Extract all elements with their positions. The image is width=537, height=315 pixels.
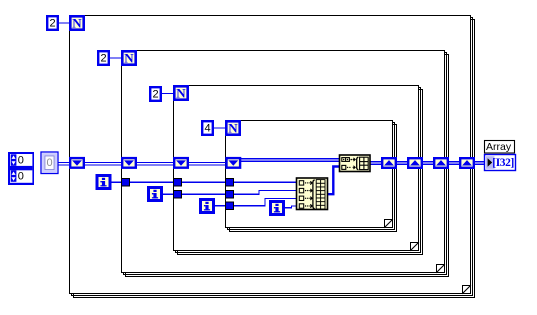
svg-text:N: N <box>72 16 82 31</box>
N count terminal loop4 <box>225 120 241 136</box>
wire: i4 to Build Array row4 <box>285 206 297 208</box>
constant 2 (loop 1 count) <box>46 15 59 31</box>
for-loop frame loop1 <box>70 16 475 298</box>
i iteration terminal loop1 <box>96 174 112 190</box>
svg-text:N: N <box>228 121 238 136</box>
i iteration terminal loop2 <box>147 186 163 202</box>
fold corner loop4 <box>384 219 393 228</box>
wire: i3 to Build Array row3 <box>215 199 297 206</box>
N count terminal loop2 <box>121 50 137 66</box>
wire: 2D array output wire to indicator <box>370 161 485 163</box>
fold corner loop2 <box>436 264 445 273</box>
for-loop frame loop4 <box>226 121 397 232</box>
tunnel i2 into loop3 <box>174 190 182 198</box>
svg-text:Array: Array <box>486 141 512 153</box>
node U2: Build Array (4 inputs) <box>297 178 328 210</box>
svg-text:0: 0 <box>18 170 24 182</box>
tunnel i1 into loop2 <box>122 178 130 186</box>
svg-text:2: 2 <box>49 17 55 29</box>
wire constant to N loop4 <box>214 127 225 129</box>
N count terminal loop3 <box>173 85 189 101</box>
fold corner loop3 <box>410 242 419 251</box>
svg-text:0: 0 <box>18 154 24 166</box>
tunnel i2 into loop4 <box>226 190 234 198</box>
i iteration terminal loop4 <box>269 200 285 216</box>
wire: i2 to Build Array row2 <box>163 191 297 195</box>
wire constant to N loop3 <box>162 93 173 95</box>
svg-text:2: 2 <box>152 88 158 100</box>
tunnel i1 into loop4 <box>226 178 234 186</box>
fold corner loop1 <box>462 285 471 294</box>
for-loop frame loop3 <box>174 86 423 255</box>
svg-text:4: 4 <box>204 122 210 134</box>
Array indicator terminal [I32] <box>485 155 516 171</box>
svg-text:N: N <box>124 51 134 66</box>
wire: Build Array output to Replace Array Subset <box>328 167 340 195</box>
shift register right (up) loop1 <box>459 157 475 169</box>
shift register right (up) loop4 <box>381 157 397 169</box>
wire: 2D array main wire, left of node <box>58 159 485 165</box>
wire constant to N loop2 <box>110 57 121 59</box>
wire: 2D array wire inside loop4 to Replace node <box>238 158 340 160</box>
wire constant to N loop1 <box>59 22 69 24</box>
i iteration terminal loop3 <box>199 198 215 214</box>
Array indicator label <box>485 141 515 154</box>
shift register left (down) loop4 <box>225 157 241 169</box>
svg-text:2: 2 <box>100 52 106 64</box>
tunnel i1 into loop3 <box>174 178 182 186</box>
node U1: Replace Array Subset <box>340 155 371 172</box>
shift register left (down) loop2 <box>121 157 137 169</box>
svg-text:N: N <box>176 86 186 101</box>
array constant index display 2 <box>11 170 17 182</box>
shift register right (up) loop3 <box>407 157 423 169</box>
2D array constant index frame <box>8 152 34 185</box>
tunnel i3 into loop4 <box>226 202 234 210</box>
constant 2 (loop 2 count) <box>97 50 110 66</box>
N count terminal loop1 <box>69 15 85 31</box>
svg-text:[I32]: [I32] <box>492 157 514 169</box>
constant 4 (loop 4 count) <box>201 120 214 136</box>
svg-text:0: 0 <box>46 157 52 169</box>
shift register right (up) loop2 <box>433 157 449 169</box>
array constant element (default 0, grayed) <box>41 152 58 174</box>
constant 2 (loop 3 count) <box>149 86 162 102</box>
array constant index display 1 <box>11 154 17 166</box>
shift register left (down) loop3 <box>173 157 189 169</box>
wire: i1 to Build Array row1 <box>111 181 297 183</box>
shift register left (down) loop1 <box>69 157 85 169</box>
for-loop frame loop2 <box>122 51 449 277</box>
